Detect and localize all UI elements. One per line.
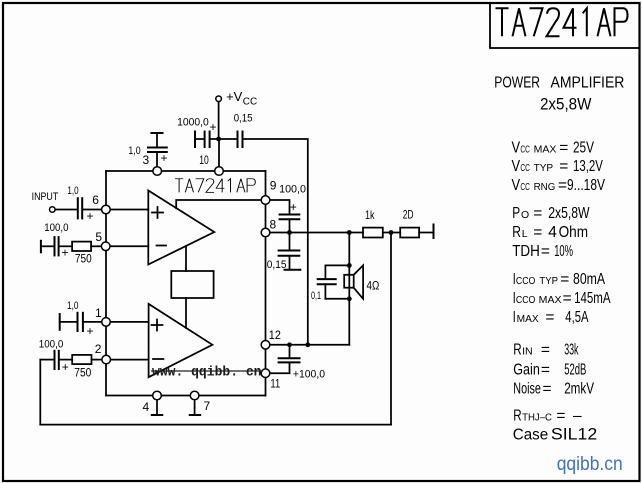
capacitor C8 100,0 [280, 214, 300, 216]
svg-text:+: + [290, 200, 297, 214]
op-amp U1 [148, 191, 214, 265]
wire cap C5 to pin 3 [156, 152, 158, 167]
svg-text:CC: CC [520, 144, 530, 156]
op-amp U2 [149, 304, 213, 377]
svg-text:25V: 25V [573, 140, 594, 157]
svg-text:11: 11 [270, 376, 280, 390]
wire cap C7 to right bus [243, 139, 308, 345]
svg-text:4: 4 [143, 400, 150, 414]
pin 10 [215, 167, 224, 176]
svg-text:1,0: 1,0 [67, 185, 78, 197]
pin 9 [261, 196, 270, 205]
wire junction to cap C11 [289, 345, 291, 358]
wire pin 1 to U2 [110, 321, 148, 323]
IC outline bottom edge [106, 395, 266, 397]
svg-text:3: 3 [143, 153, 150, 167]
wire internal block to U2 [185, 298, 187, 328]
pin 8 [261, 228, 270, 237]
svg-text:–: – [573, 408, 582, 425]
pin 4 [153, 391, 162, 400]
wire bar to cap C6 [195, 138, 204, 140]
svg-text:INPUT: INPUT [32, 191, 59, 203]
pin 7 [190, 391, 199, 400]
op-amp U1 plus sign [152, 212, 163, 214]
wire pin 10 stem [218, 139, 220, 167]
svg-text:10%: 10% [554, 243, 573, 260]
junction speaker at pin 8 wire [347, 230, 352, 235]
junction speaker top [347, 263, 352, 268]
terminal bar row1 [59, 314, 61, 330]
resistor R3 1k [363, 228, 383, 238]
svg-text:=: = [533, 224, 542, 241]
svg-text:6: 6 [92, 193, 99, 207]
svg-text:CC: CC [520, 162, 530, 174]
svg-text:=: = [541, 243, 550, 260]
svg-text:145mA: 145mA [574, 290, 611, 307]
svg-text:I: I [513, 309, 516, 326]
svg-text:+: + [210, 120, 217, 134]
pin 12 [261, 341, 270, 350]
wire feedback bottom horizontal [40, 424, 391, 426]
svg-text:+100,0: +100,0 [293, 369, 325, 381]
wire R1 to pin 5 [91, 245, 101, 247]
svg-text:qqibb.cn: qqibb.cn [557, 453, 623, 475]
svg-text:80mA: 80mA [573, 271, 606, 288]
svg-text:12: 12 [269, 328, 281, 342]
svg-text:V: V [512, 177, 521, 194]
svg-text:+: + [62, 245, 69, 259]
svg-text:0,15: 0,15 [267, 259, 287, 271]
svg-text:=: = [541, 342, 550, 359]
pin circles [50, 96, 270, 400]
svg-text:1000,0: 1000,0 [177, 116, 209, 128]
svg-text:=: = [559, 140, 568, 157]
svg-text:52dB: 52dB [564, 362, 586, 379]
svg-text:1,0: 1,0 [67, 300, 79, 312]
resistor R4 2D [400, 228, 419, 238]
svg-text:100,0: 100,0 [44, 222, 68, 234]
svg-text:0,15: 0,15 [234, 112, 253, 124]
svg-text:9: 9 [270, 178, 277, 192]
wire cap C10 bottom branch [325, 298, 349, 300]
wire speaker branch vertical [348, 233, 350, 345]
svg-text:=: = [556, 408, 565, 425]
title box [490, 3, 640, 48]
terminal bar cap C9 bottom [285, 269, 301, 271]
op-amp U2 plus sign [152, 324, 163, 326]
wire R3 to R4 [383, 232, 400, 234]
IC outline left edge [105, 171, 107, 396]
svg-text:1: 1 [95, 306, 102, 320]
pin 3 [153, 167, 162, 176]
svg-text:+: + [161, 151, 168, 165]
svg-text:CC: CC [520, 181, 530, 193]
svg-text:AMPLIFIER: AMPLIFIER [551, 74, 625, 91]
svg-text:RNG: RNG [534, 181, 556, 193]
svg-text:4,5A: 4,5A [565, 309, 589, 326]
svg-text:=: = [558, 177, 567, 194]
svg-text:THJ–C: THJ–C [522, 412, 552, 424]
junction cap C8 at pin 8 wire [287, 230, 292, 235]
wire pin 5 to U1 [110, 245, 148, 247]
wire cap C10 top branch [325, 264, 349, 266]
wire to cap C10 [324, 265, 326, 279]
watermark strikethrough [151, 370, 263, 372]
ground bar pin 7 [190, 414, 201, 416]
svg-text:R: R [513, 342, 521, 359]
op-amp U2 minus sign [153, 358, 163, 360]
svg-text:1k: 1k [365, 208, 375, 222]
capacitor C11 100,0 [279, 357, 300, 359]
svg-text:100,0: 100,0 [279, 183, 306, 195]
svg-text:O: O [521, 209, 529, 221]
pin 6 [102, 205, 111, 214]
terminal bar output [433, 225, 435, 239]
junction cap C11 at pin 12 wire [287, 342, 292, 347]
junction speaker bottom [347, 296, 352, 301]
terminal INPUT [50, 207, 56, 213]
svg-text:V: V [512, 158, 521, 175]
svg-text:Gain: Gain [513, 362, 540, 379]
junction Vcc node [216, 137, 221, 142]
svg-text:TYP: TYP [534, 162, 554, 174]
wire input to cap C1 [55, 209, 77, 211]
internal block [171, 271, 213, 298]
wire Vcc terminal down [218, 102, 220, 140]
svg-text:2D: 2D [403, 207, 414, 221]
svg-text:=: = [533, 205, 542, 222]
wire bar to cap C5 [156, 133, 158, 147]
wire cap C11 to pin 11 [289, 362, 291, 373]
svg-text:CCO: CCO [516, 275, 536, 287]
capacitor C7 0,15 [237, 132, 239, 148]
svg-text:4Ω: 4Ω [367, 278, 380, 292]
svg-text:+V: +V [226, 89, 243, 104]
wire bar to cap C3 [60, 321, 77, 323]
svg-text:Case: Case [513, 427, 548, 444]
terminal bar cap C6 left [194, 132, 196, 148]
svg-text:MAX: MAX [539, 294, 562, 306]
op-amp U1 minus sign [157, 245, 167, 247]
svg-text:www. qqibb. cn: www. qqibb. cn [152, 366, 262, 381]
wire cap C9 to end bar [289, 256, 291, 270]
wire pin 12 output [270, 344, 350, 346]
ground stem pin 4 [156, 400, 158, 415]
pin 11 [261, 369, 270, 378]
wire cap C8 to pin 8 line [289, 219, 291, 232]
ground bar pin 4 [152, 414, 163, 416]
svg-text:9...18V: 9...18V [567, 177, 606, 194]
svg-text:=: = [563, 290, 572, 307]
svg-text:MAX: MAX [534, 144, 557, 156]
svg-text:750: 750 [75, 253, 92, 265]
wire pin 11 [270, 372, 290, 374]
capacitor C5 1,0 [148, 147, 167, 149]
wire cap C3 to pin 1 [84, 321, 102, 323]
IC outline top edge [106, 170, 266, 172]
svg-text:7: 7 [204, 399, 211, 413]
svg-text:2x5,8W: 2x5,8W [540, 96, 592, 114]
svg-text:V: V [512, 140, 521, 157]
svg-text:CC: CC [243, 97, 257, 108]
wire R4 to end bar [419, 232, 433, 234]
wire cap C1 to pin 6 [83, 209, 102, 211]
label IC name TA7241AP (stick letters) [175, 179, 255, 193]
junction right bus at pin 12 wire [305, 342, 310, 347]
wire R2 to pin 2 [92, 359, 102, 361]
svg-text:=: = [559, 158, 568, 175]
capacitor C3 1,0 [77, 313, 79, 331]
svg-text:P: P [512, 205, 520, 222]
pin 5 [101, 242, 110, 251]
svg-text:SIL12: SIL12 [551, 426, 597, 444]
capacitor C9 0,15 [279, 250, 300, 252]
svg-text:100,0: 100,0 [39, 339, 64, 351]
svg-text:L: L [522, 228, 528, 240]
pin 2 [102, 355, 111, 364]
svg-text:+: + [62, 360, 69, 374]
wire pin 8 output [270, 232, 363, 234]
svg-text:4: 4 [548, 224, 557, 241]
svg-text:Ohm: Ohm [559, 224, 589, 241]
capacitor C10 0,1 [318, 278, 336, 280]
svg-text:8: 8 [270, 218, 277, 232]
svg-text:R: R [512, 224, 521, 241]
svg-text:2: 2 [95, 342, 102, 356]
svg-text:33k: 33k [564, 342, 578, 359]
junction dots [216, 137, 393, 348]
svg-text:2x5,8W: 2x5,8W [548, 205, 590, 222]
terminal bar row5 [40, 241, 42, 253]
svg-text:=: = [560, 271, 569, 288]
wire cap C6 to junction [210, 138, 237, 140]
junction feedback at output [389, 230, 394, 235]
speaker LS1 cone [354, 265, 363, 298]
svg-text:R: R [513, 408, 521, 425]
wire feedback left vertical [39, 360, 41, 425]
svg-text:POWER: POWER [494, 74, 540, 91]
svg-text:+: + [87, 324, 94, 338]
wire cap C10 bottom [324, 284, 326, 299]
resistor R1 750 [72, 242, 91, 251]
wire feedback corner to cap C4 [40, 359, 54, 361]
wire pin 2 to U2 [111, 359, 149, 361]
svg-text:1,0: 1,0 [128, 145, 140, 157]
svg-text:=: = [541, 362, 550, 379]
wire pin 6 to U1 [110, 209, 148, 211]
wire junction to cap C9 [289, 233, 291, 251]
capacitor C4 100,0 [54, 351, 56, 369]
svg-text:2mkV: 2mkV [564, 381, 594, 398]
svg-text:13,2V: 13,2V [573, 158, 603, 175]
svg-text:MAX: MAX [517, 313, 539, 325]
label title TA7241AP (stick letters) [496, 8, 628, 36]
wire pin 9 internal [176, 200, 261, 208]
resistor R2 750 [72, 355, 91, 364]
svg-text:5: 5 [95, 230, 102, 244]
wire feedback right vertical [390, 232, 392, 424]
svg-text:10: 10 [199, 153, 209, 167]
svg-text:TYP: TYP [539, 275, 558, 287]
IC outline right edge [265, 171, 267, 396]
svg-text:IN: IN [522, 346, 533, 358]
capacitor C1 1,0 [77, 198, 79, 218]
wire cap C4 to resistor R2 [59, 359, 72, 361]
svg-text:+: + [87, 209, 94, 223]
svg-text:Noise: Noise [513, 381, 541, 398]
wire internal block to U1 [185, 246, 187, 271]
terminal +Vcc [216, 96, 222, 102]
pin 1 [102, 318, 111, 327]
svg-text:=: = [543, 381, 552, 398]
terminal bar cap C5 top [151, 132, 162, 134]
svg-text:=: = [545, 309, 554, 326]
ground stem pin 7 [194, 400, 196, 415]
wire cap C2 to resistor R1 [59, 245, 72, 247]
svg-text:CCO: CCO [516, 294, 536, 306]
svg-text:TDH: TDH [512, 243, 540, 260]
wire pin 9 to cap C8 [270, 200, 290, 214]
svg-text:0,1: 0,1 [311, 290, 321, 302]
capacitor C2 100,0 [54, 237, 56, 255]
speaker LS1 box [344, 275, 354, 288]
capacitor C6 1000,0 [204, 132, 206, 148]
wire bar to cap C2 [41, 245, 54, 247]
svg-text:750: 750 [74, 368, 91, 380]
